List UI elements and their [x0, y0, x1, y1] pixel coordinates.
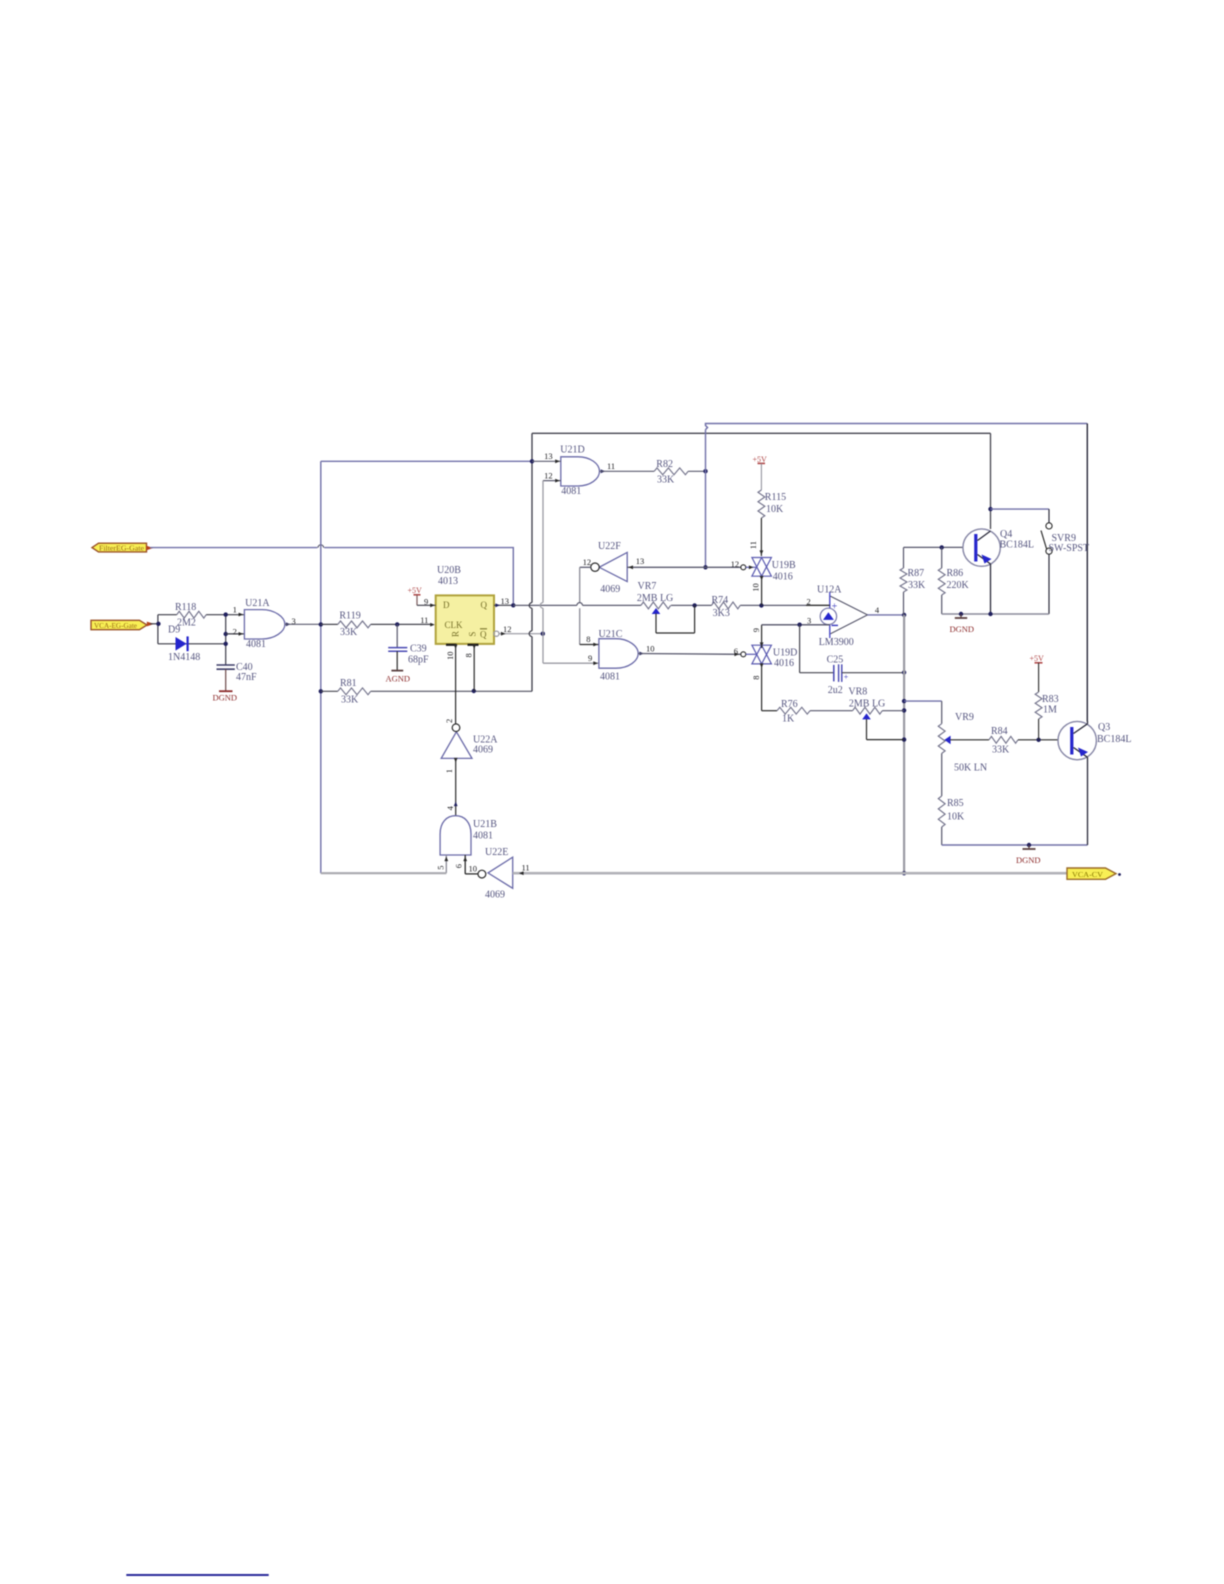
svg-text:R83: R83 [1042, 694, 1059, 705]
svg-text:CLK: CLK [445, 620, 464, 630]
svg-text:U21B: U21B [473, 819, 497, 830]
wire U21A output pin 3 [285, 616, 321, 626]
svg-text:10: 10 [469, 864, 478, 874]
svg-text:R85: R85 [947, 798, 964, 809]
capacitor C40 47nF [217, 662, 258, 691]
wire U22A pin 1 to U21B pin 4 [444, 758, 457, 816]
svg-text:12: 12 [503, 624, 512, 634]
wire Q output pin 13 [494, 596, 516, 608]
potentiometer VR8 2MB LG [848, 686, 904, 739]
svg-text:11: 11 [522, 863, 530, 873]
wire U12A output pin 4 [868, 605, 907, 617]
svg-text:9: 9 [588, 653, 592, 663]
switch SVR9 SW-SPST [1041, 523, 1089, 555]
resistor R74 3K3 [712, 595, 741, 619]
svg-text:R84: R84 [991, 726, 1008, 737]
svg-text:33K: 33K [908, 580, 926, 591]
svg-text:U21A: U21A [245, 598, 270, 609]
ground DGND (Q4) [950, 614, 975, 634]
svg-text:13: 13 [636, 556, 645, 566]
svg-text:FilterEG-Gate: FilterEG-Gate [99, 545, 144, 553]
wire U19B pin 12 control [706, 559, 757, 570]
inverter U22F 4069 [583, 541, 645, 595]
wire pin 9 [417, 597, 436, 608]
wire U21D output pin 11 + resistor R82 33K [600, 459, 708, 486]
svg-text:DGND: DGND [213, 693, 238, 703]
resistor R118 2M2 [158, 602, 245, 629]
svg-text:4016: 4016 [774, 658, 794, 669]
svg-text:4081: 4081 [246, 639, 266, 650]
wire bottom bus left (to U21B pin5) [321, 872, 447, 874]
svg-text:3: 3 [807, 616, 811, 626]
wire top feedback y=461 [321, 460, 532, 462]
power +5V (R115) [753, 455, 768, 464]
wire U19B pin 10 [750, 576, 763, 606]
wire U21D pin 13 [532, 451, 561, 463]
capacitor C25 2u2 [800, 625, 907, 697]
svg-text:10: 10 [750, 583, 760, 592]
svg-text:+5V: +5V [753, 455, 768, 464]
svg-text:Q: Q [481, 600, 488, 610]
svg-text:DGND: DGND [1016, 855, 1041, 865]
svg-text:12: 12 [583, 557, 592, 567]
svg-text:4069: 4069 [473, 744, 493, 755]
svg-text:8: 8 [464, 653, 474, 657]
wire U12A pin 3 [762, 616, 830, 627]
svg-text:2: 2 [807, 596, 811, 606]
ground AGND [386, 671, 411, 684]
wire R pin 10 [445, 644, 458, 724]
svg-text:R115: R115 [765, 492, 786, 503]
resistor R86 220K [938, 547, 969, 614]
svg-text:4: 4 [875, 605, 880, 615]
and-gate U21C 4081 [599, 629, 639, 682]
wire VCA-EG-Gate node [150, 615, 161, 644]
ground DGND (C40) [213, 691, 238, 702]
svg-text:50K LN: 50K LN [954, 762, 987, 773]
svg-text:S: S [468, 632, 478, 637]
footer rule [126, 1574, 268, 1576]
svg-text:U19B: U19B [772, 560, 796, 571]
svg-text:4: 4 [445, 805, 455, 810]
svg-text:3: 3 [292, 616, 296, 626]
port VCA-CV [1067, 868, 1121, 879]
port FilterEG-Gate [92, 543, 153, 552]
svg-text:13: 13 [544, 451, 553, 461]
wire top bus 1 (blue, y=423.5) [706, 424, 1088, 722]
svg-text:+: + [844, 673, 849, 682]
svg-text:LM3900: LM3900 [819, 637, 854, 648]
svg-text:R76: R76 [781, 699, 798, 710]
wire U21C output pin 10 to U19D pin 6 [638, 643, 756, 656]
svg-text:2MB LG: 2MB LG [849, 698, 885, 709]
transistor Q3 BC184L [1058, 721, 1131, 759]
wire main vertical node (U12A out) [902, 615, 906, 876]
svg-text:3K3: 3K3 [713, 608, 730, 619]
wire U21B pin 6 from U22E [454, 855, 478, 874]
svg-text:R74: R74 [712, 595, 729, 606]
svg-text:2: 2 [233, 626, 237, 636]
inverter U22E 4069 [469, 847, 530, 901]
wire U19D pin 8 to R76 [751, 663, 764, 710]
wire branch to VR9 [904, 701, 942, 724]
svg-text:1: 1 [444, 769, 454, 773]
svg-text:D: D [443, 600, 450, 610]
svg-text:DGND: DGND [950, 624, 975, 634]
resistor R84 33K [989, 726, 1058, 755]
resistor R115 10K [748, 463, 786, 556]
svg-text:47nF: 47nF [236, 672, 257, 683]
svg-text:+5V: +5V [1030, 654, 1045, 663]
wire Q-bar output pin 12 [494, 624, 545, 636]
wire Q4 base line [904, 545, 964, 549]
svg-text:11: 11 [420, 615, 428, 625]
svg-text:Q4: Q4 [1000, 529, 1012, 540]
svg-text:VR8: VR8 [848, 686, 867, 697]
svg-text:2u2: 2u2 [828, 685, 843, 696]
svg-text:U21D: U21D [560, 445, 584, 456]
wire Q4 emitter bus y=614 [942, 564, 1049, 616]
svg-text:D9: D9 [168, 625, 180, 636]
svg-text:33K: 33K [340, 627, 358, 638]
svg-text:11: 11 [607, 461, 615, 471]
svg-text:U22F: U22F [598, 541, 621, 552]
power +5V (R83) [1030, 654, 1045, 663]
svg-text:BC184L: BC184L [1097, 734, 1131, 745]
svg-text:1M: 1M [1043, 705, 1057, 716]
resistor R83 1M [1035, 663, 1058, 740]
svg-text:VCA-EG-Gate: VCA-EG-Gate [94, 622, 137, 630]
svg-text:U20B: U20B [437, 565, 461, 576]
resistor R76 1K [762, 699, 853, 724]
wire U19D pin 9 [751, 625, 764, 648]
wire U22F input pin 13 [627, 565, 705, 569]
transistor Q4 BC184L [963, 529, 1034, 566]
power +5V (U20B pin 9) [408, 586, 423, 605]
svg-text:1: 1 [233, 605, 237, 615]
svg-text:6: 6 [454, 864, 464, 868]
wire U21B pin 5 [435, 855, 448, 873]
capacitor C39 68pF [388, 622, 429, 670]
vertical x=532 (S feedback) [529, 433, 534, 691]
svg-text:9: 9 [751, 628, 761, 632]
svg-text:R87: R87 [908, 568, 925, 579]
potentiometer VR7 2MB LG [637, 581, 695, 633]
svg-text:U19D: U19D [773, 648, 797, 659]
svg-text:10: 10 [646, 643, 655, 653]
and-gate U21A 4081 [244, 598, 285, 650]
hop on Q line at x=579.7 [577, 603, 583, 606]
svg-text:SW-SPST: SW-SPST [1049, 543, 1090, 554]
svg-text:4081: 4081 [561, 486, 581, 497]
svg-text:1N4148: 1N4148 [168, 652, 200, 663]
svg-text:33K: 33K [657, 475, 675, 486]
svg-text:10K: 10K [766, 504, 784, 515]
svg-text:+5V: +5V [408, 586, 423, 595]
svg-text:R119: R119 [339, 610, 360, 621]
wire SVR9 bottom to bus [1048, 554, 1050, 614]
svg-text:68pF: 68pF [408, 655, 429, 666]
svg-text:R118: R118 [175, 602, 196, 613]
analog switch U19B 4016 [752, 558, 796, 583]
svg-text:VR7: VR7 [638, 581, 657, 592]
wire bottom bus right (VCA-CV net) [513, 871, 1067, 875]
node A : vertical bus x=320.8 [319, 461, 323, 873]
svg-text:R81: R81 [340, 678, 357, 689]
wire bottom blue (emitter bus) [942, 843, 1088, 847]
svg-text:VR9: VR9 [955, 712, 974, 723]
wire pin 11 CLK [420, 615, 435, 626]
and-gate U21D 4081 [560, 445, 599, 497]
svg-text:4081: 4081 [473, 830, 493, 841]
svg-text:C25: C25 [827, 654, 844, 665]
svg-text:Q: Q [480, 630, 487, 640]
svg-text:R86: R86 [947, 568, 964, 579]
svg-text:10: 10 [445, 652, 455, 661]
svg-text:220K: 220K [947, 580, 970, 591]
potentiometer VR9 50K LN [938, 712, 989, 796]
resistor R81 33K [321, 678, 532, 705]
svg-text:U21C: U21C [599, 629, 623, 640]
svg-text:R82: R82 [656, 459, 673, 470]
svg-text:Q3: Q3 [1098, 722, 1110, 733]
svg-text:BC184L: BC184L [1000, 539, 1034, 550]
svg-text:5: 5 [435, 866, 445, 870]
svg-text:12: 12 [731, 559, 740, 569]
svg-text:4069: 4069 [600, 584, 620, 595]
flip-flop U20B 4013 [436, 565, 494, 645]
svg-text:U12A: U12A [817, 585, 842, 596]
svg-text:9: 9 [424, 597, 428, 607]
wire S pin 8 [464, 644, 477, 691]
svg-text:33K: 33K [992, 745, 1010, 756]
svg-text:U22E: U22E [485, 847, 508, 858]
wire Q3 collector/emitter [1087, 721, 1089, 845]
svg-text:10K: 10K [947, 811, 965, 822]
node: U21A input column [224, 605, 245, 665]
ground DGND (bottom) [1016, 845, 1041, 865]
svg-text:4081: 4081 [600, 671, 620, 682]
svg-text:1K: 1K [782, 713, 795, 724]
svg-text:2: 2 [444, 719, 454, 723]
svg-text:4013: 4013 [438, 576, 458, 587]
wire top bus 2 (dark, y=433.3) [532, 433, 991, 529]
svg-text:R: R [451, 631, 461, 637]
svg-text:C39: C39 [410, 643, 427, 654]
svg-text:AGND: AGND [386, 673, 411, 683]
resistor R119 33K [321, 610, 431, 637]
svg-text:4016: 4016 [773, 572, 793, 583]
wire U12A pin 2 [806, 596, 830, 606]
inverter U22A 4069 [441, 719, 498, 759]
wire FilterEG-Gate to Q node [150, 545, 513, 603]
vertical from R82 node to U22F/U19B [703, 430, 707, 570]
wire Q4 collector node [988, 507, 1049, 523]
resistor R85 10K [938, 796, 965, 845]
diode D9 1N4148 [158, 625, 226, 663]
wire U21D pin 12 [540, 470, 599, 665]
wire Q net to U12A pin 2 [513, 603, 830, 608]
svg-text:13: 13 [501, 596, 510, 606]
svg-text:6: 6 [734, 646, 738, 656]
svg-text:VCA-CV: VCA-CV [1072, 870, 1104, 879]
op-amp U12A LM3900 [817, 585, 868, 648]
svg-text:11: 11 [748, 541, 758, 549]
svg-text:33K: 33K [341, 694, 359, 705]
svg-text:8: 8 [586, 634, 590, 644]
wire U22F output pin 12 to U21C pin 8 [580, 567, 599, 646]
svg-text:12: 12 [544, 470, 553, 480]
and-gate U21B 4081 [440, 816, 497, 855]
resistor R87 33K [900, 547, 926, 615]
port VCA-EG-Gate [91, 620, 154, 630]
analog switch U19D 4016 [752, 645, 797, 669]
svg-text:2MB LG: 2MB LG [637, 593, 673, 604]
svg-text:8: 8 [751, 676, 761, 680]
svg-text:4069: 4069 [485, 890, 505, 901]
